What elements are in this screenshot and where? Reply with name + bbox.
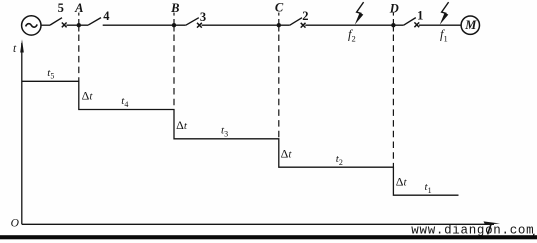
svg-text:1: 1 [417, 8, 423, 22]
node C [277, 23, 281, 27]
t axis (vertical) [21, 43, 23, 224]
wire source to breaker 5 [41, 24, 50, 26]
svg-text:Δt: Δt [396, 175, 408, 189]
svg-text:C: C [275, 1, 284, 15]
svg-text:5: 5 [58, 1, 64, 15]
breaker 3 contact x [197, 23, 202, 28]
node B [172, 23, 176, 27]
svg-text:B: B [170, 1, 179, 15]
wire breaker 1 to motor [419, 24, 461, 26]
bottom rule bar [0, 235, 537, 239]
svg-text:2: 2 [302, 9, 308, 23]
dashed drop line from node B [173, 13, 175, 110]
fault f1 lightning bolt [440, 2, 449, 25]
svg-text:4: 4 [103, 9, 110, 23]
wire x5 to breaker 4 (through node A) [66, 24, 88, 26]
wire breaker 2 to breaker 1 (through node D) [305, 24, 403, 26]
node D [391, 23, 395, 27]
dashed drop line from node D [392, 13, 394, 167]
t axis arrowhead [20, 39, 24, 52]
motor M [461, 16, 479, 34]
breaker 3 blade [186, 18, 199, 26]
breaker 2 contact x [301, 23, 306, 28]
breaker 4 blade [88, 18, 101, 26]
time axis (horizontal) [22, 223, 494, 225]
breaker 5 blade [50, 18, 62, 25]
dashed drop line from node A [78, 13, 80, 81]
svg-text:M: M [464, 18, 477, 32]
svg-text:Δt: Δt [176, 118, 188, 132]
source G1 (AC source circle) [22, 16, 41, 35]
staircase time-grading curve [22, 81, 459, 195]
breaker 5 contact x [62, 23, 67, 28]
wire breaker 3 to breaker 2 (through node C) [202, 24, 290, 26]
svg-text:Δt: Δt [82, 88, 94, 102]
horizontal axis arrowhead [484, 221, 501, 224]
fault f2 lightning bolt [355, 2, 364, 25]
breaker 2 blade [290, 18, 302, 26]
breaker 1 blade [404, 18, 416, 26]
svg-text:3: 3 [200, 10, 206, 24]
svg-text:O: O [11, 218, 20, 230]
dashed drop line from node C [278, 13, 280, 139]
wire breaker 4 to breaker 3 (through node B) [103, 24, 186, 26]
svg-text:Δt: Δt [281, 146, 293, 160]
watermark slash over o [488, 223, 492, 234]
breaker 1 contact x [414, 22, 419, 27]
node A [77, 23, 81, 27]
